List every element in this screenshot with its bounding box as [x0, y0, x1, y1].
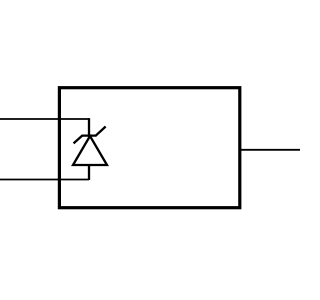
- wire: cathode stub: [88, 118, 90, 137]
- wire: left top lead to cathode: [0, 118, 89, 120]
- wire: right output lead: [240, 149, 300, 151]
- wire: anode stub: [88, 164, 90, 180]
- zener diode D1: anode triangle: [73, 136, 107, 165]
- zener diode D1: cathode bar with bent ends: [74, 127, 104, 142]
- component body (block outline) U1: [59, 88, 239, 208]
- wire: left bottom lead from anode: [0, 179, 89, 181]
